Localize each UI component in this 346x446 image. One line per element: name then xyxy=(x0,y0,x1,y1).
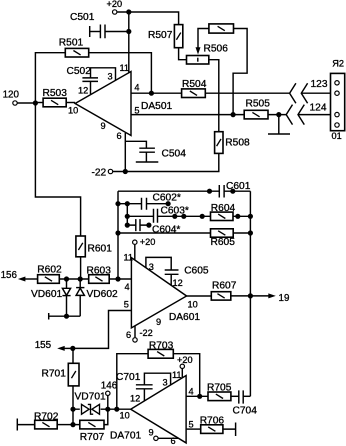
wire DA601 pin5 loop to 155 xyxy=(73,311,132,349)
resistor R601 xyxy=(76,236,112,279)
svg-text:R707: R707 xyxy=(80,432,105,443)
junction dot R702/R707 row xyxy=(70,422,75,427)
ground chassis bar at R505 xyxy=(268,115,290,134)
junction dot bus/row E xyxy=(115,230,120,235)
wire DA701 pin5 row xyxy=(186,428,201,430)
junction dot row C bus xyxy=(248,214,253,219)
svg-text:01: 01 xyxy=(332,131,342,141)
connector YA2 xyxy=(331,58,345,141)
svg-text:10: 10 xyxy=(188,300,198,310)
svg-text:11: 11 xyxy=(124,253,134,263)
wire row E (R605 branch) xyxy=(118,232,250,234)
svg-text:11: 11 xyxy=(172,370,182,380)
svg-text:C504: C504 xyxy=(162,149,187,160)
junction dot pin6/-22 rail xyxy=(123,169,128,174)
wire DA601 output to R607 xyxy=(187,295,212,297)
junction dot R505/ground xyxy=(276,112,281,117)
svg-text:9: 9 xyxy=(156,317,161,327)
svg-text:R507: R507 xyxy=(148,30,173,41)
junction dot VD601 bottom rail xyxy=(64,314,69,319)
node -22 (DA601 pin6 terminal) xyxy=(133,326,153,342)
wire pin11 bus DA501 xyxy=(128,12,130,73)
svg-text:C701: C701 xyxy=(116,372,141,383)
ground chassis bar under C504 xyxy=(136,161,159,163)
svg-text:C501: C501 xyxy=(70,12,95,23)
wire 120 node down to R601 xyxy=(35,103,80,236)
svg-text:R501: R501 xyxy=(59,38,84,49)
svg-text:R503: R503 xyxy=(43,88,68,99)
svg-text:-22: -22 xyxy=(92,168,107,179)
svg-text:10: 10 xyxy=(120,411,130,421)
svg-text:+20: +20 xyxy=(107,0,123,9)
svg-text:4: 4 xyxy=(134,82,139,92)
junction dot top-box jog/pin5 xyxy=(231,112,236,117)
junction dot VD601 top xyxy=(64,276,69,281)
svg-text:Я2: Я2 xyxy=(332,58,344,68)
svg-text:DA501: DA501 xyxy=(141,101,172,112)
op-amp DA601 xyxy=(124,253,201,341)
wire R703 row left bus xyxy=(117,354,148,410)
junction dot row A left of C601 xyxy=(207,189,212,194)
svg-text:6: 6 xyxy=(126,330,131,340)
node +20 (DA701 pin11 terminal) xyxy=(177,355,193,378)
svg-text:10: 10 xyxy=(68,106,78,116)
wire pin5 row DA501 xyxy=(131,114,286,116)
capacitor C605 xyxy=(146,257,209,285)
svg-text:+20: +20 xyxy=(177,355,193,365)
svg-text:3: 3 xyxy=(149,262,154,272)
connector pin 123 (chevrons) xyxy=(290,79,335,103)
node +20 (top supply terminal) xyxy=(107,0,123,14)
svg-text:C604*: C604* xyxy=(152,225,180,236)
diode VD602 xyxy=(76,279,118,316)
svg-text:12: 12 xyxy=(130,394,140,404)
junction dot row D right end xyxy=(146,223,151,228)
svg-text:5: 5 xyxy=(124,300,129,310)
junction dot pin4 DA701 xyxy=(197,394,202,399)
junction dot row C a xyxy=(172,214,177,219)
svg-text:9: 9 xyxy=(101,121,106,131)
node 156 (arrow left) xyxy=(1,270,38,281)
node 19 (arrow right) xyxy=(250,293,289,304)
svg-text:DA601: DA601 xyxy=(169,312,200,323)
wire left bus of coupling network xyxy=(117,191,119,279)
wire row D (C604 branch) xyxy=(127,224,149,226)
svg-text:120: 120 xyxy=(3,89,20,100)
ground rail with chassis tick (VD pair) xyxy=(49,313,80,320)
resistor (upper, unlabeled) of R506 network xyxy=(209,24,234,33)
svg-text:R508: R508 xyxy=(225,138,250,149)
junction dot R604 right xyxy=(235,214,240,219)
wire +20 to R507 top xyxy=(117,12,178,25)
diode VD601 xyxy=(31,279,71,316)
junction dot pin10/146 xyxy=(105,407,110,412)
junction dot bus/R603 row xyxy=(115,276,120,281)
svg-text:+20: +20 xyxy=(140,237,156,247)
svg-text:124: 124 xyxy=(310,103,327,114)
svg-text:155: 155 xyxy=(35,340,52,351)
junction dot bus/row B xyxy=(115,201,120,206)
node -22 (terminal) xyxy=(92,168,113,179)
capacitor C704 xyxy=(233,390,258,416)
resistor R707 xyxy=(73,420,104,443)
svg-text:6: 6 xyxy=(117,131,122,141)
svg-text:DA701: DA701 xyxy=(110,431,141,442)
wire R506 right to R508 xyxy=(209,60,219,132)
junction dot row B right end xyxy=(166,201,171,206)
resistor R508 xyxy=(215,132,250,154)
svg-text:6: 6 xyxy=(171,436,176,446)
svg-text:R607: R607 xyxy=(212,281,237,292)
svg-text:9: 9 xyxy=(149,428,154,438)
capacitor C601 xyxy=(219,181,250,198)
junction dot +20 bus xyxy=(126,9,131,14)
svg-text:11: 11 xyxy=(120,63,130,73)
junction dot row A right of C601 xyxy=(230,189,235,194)
junction dot row C b xyxy=(181,214,186,219)
wire pin6 DA501 down xyxy=(124,133,126,172)
diode VD701 (bidirectional) xyxy=(75,392,106,415)
capacitor C603* xyxy=(154,206,189,223)
wire minibus rows B-D xyxy=(126,204,128,225)
wire R507 bottom to R506 xyxy=(179,48,187,60)
svg-text:4: 4 xyxy=(189,387,194,397)
op-amp DA701 xyxy=(110,370,194,446)
resistor R604 xyxy=(211,203,251,221)
svg-text:C601: C601 xyxy=(226,181,251,192)
resistor R505 xyxy=(244,99,270,119)
capacitor C501 xyxy=(70,12,129,38)
svg-text:R506: R506 xyxy=(204,44,229,55)
junction dot 120 node xyxy=(33,100,38,105)
junction dot minibus row C xyxy=(125,214,130,219)
wire top box right jog to pin5 row xyxy=(233,29,247,115)
resistor R705 xyxy=(207,382,239,400)
potentiometer R506 xyxy=(187,44,229,65)
resistor R605 xyxy=(211,229,236,248)
capacitor C502 xyxy=(67,66,116,94)
connector pin 124 (chevrons) xyxy=(286,103,334,125)
node 146 (terminal) xyxy=(101,381,118,425)
svg-text:C502: C502 xyxy=(67,66,92,77)
resistor R702 with chassis tick xyxy=(17,411,73,430)
capacitor C604* xyxy=(136,219,181,236)
svg-text:156: 156 xyxy=(1,270,18,281)
wire row A (C601 branch) xyxy=(118,190,250,192)
wiper arrow into R506 xyxy=(196,29,209,55)
wire R501 right to pin4 node xyxy=(89,53,152,93)
svg-text:19: 19 xyxy=(279,293,290,304)
svg-text:VD602: VD602 xyxy=(87,289,118,300)
node pin9 DA701 (terminal) xyxy=(154,436,179,440)
junction dot 155/R701 xyxy=(70,346,75,351)
resistor R603 xyxy=(87,266,132,284)
resistor R602 xyxy=(37,265,88,284)
svg-text:C605: C605 xyxy=(184,266,209,277)
junction dot pin10/R703 bus xyxy=(114,407,119,412)
junction dot VD701 left xyxy=(70,407,75,412)
resistor R607 xyxy=(211,281,250,301)
svg-text:12: 12 xyxy=(78,86,88,96)
node 120 (input terminal) xyxy=(3,89,36,105)
svg-text:R701: R701 xyxy=(42,369,67,380)
svg-text:146: 146 xyxy=(101,381,118,392)
wire R508 bottom to -22 rail xyxy=(113,153,219,171)
svg-text:VD701: VD701 xyxy=(75,392,106,403)
wire DA701 pin4 row xyxy=(186,395,208,397)
resistor R701 xyxy=(42,348,80,424)
wire pin4 row DA501 xyxy=(131,92,290,94)
resistor R507 xyxy=(148,25,183,48)
svg-text:3: 3 xyxy=(108,72,113,82)
wire R501 left to 120 node xyxy=(35,53,65,103)
op-amp DA501 xyxy=(68,63,172,141)
capacitor C504 xyxy=(125,141,186,162)
junction dot C501/bus xyxy=(126,29,131,34)
svg-text:123: 123 xyxy=(311,79,328,90)
svg-text:R505: R505 xyxy=(246,99,271,110)
junction dot VD602/R601 xyxy=(78,276,83,281)
svg-text:4: 4 xyxy=(125,282,130,292)
svg-text:R601: R601 xyxy=(88,244,113,255)
junction dot minibus row D xyxy=(125,223,130,228)
svg-text:C704: C704 xyxy=(233,406,258,417)
resistor R504 xyxy=(182,79,207,98)
wire right bus (output node) xyxy=(249,191,251,396)
svg-text:-22: -22 xyxy=(140,328,153,338)
resistor R706 with chassis tick xyxy=(200,415,236,436)
svg-text:5: 5 xyxy=(189,420,194,430)
junction dot row C c xyxy=(200,214,205,219)
node 155 (arrow left) xyxy=(35,340,73,351)
junction dot row E bus xyxy=(248,230,253,235)
resistor R501 xyxy=(59,38,89,58)
svg-text:3: 3 xyxy=(163,378,168,388)
capacitor C602* xyxy=(142,193,181,210)
svg-text:12: 12 xyxy=(173,278,183,288)
wire row B (C602 branch) xyxy=(118,203,168,205)
wire row C (C603 branch) xyxy=(127,215,210,217)
wire DA701 pin10 row xyxy=(73,408,131,410)
junction dot minibus row B xyxy=(125,201,130,206)
junction dot pin4/R501 xyxy=(149,91,154,96)
capacitor C701 xyxy=(116,372,171,401)
svg-text:R605: R605 xyxy=(211,237,236,248)
node +20 (DA601 pin11 terminal) xyxy=(133,237,156,260)
resistor R503 xyxy=(35,88,75,107)
resistor R703 xyxy=(148,341,200,397)
svg-text:VD601: VD601 xyxy=(31,289,62,300)
junction dot output node 19 xyxy=(248,293,253,298)
